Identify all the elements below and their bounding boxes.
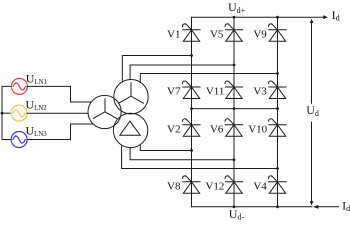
arrow Id top: [323, 15, 328, 19]
AC source ULN3: [11, 132, 27, 148]
svg-text:V2: V2: [167, 123, 180, 135]
wire neutral to source 2: [2, 112, 11, 114]
node middle bus leg1: [190, 107, 193, 110]
node middle bus leg2: [233, 107, 236, 110]
wire bridge leg 1: [191, 17, 193, 207]
node delta tap leg1: [190, 149, 193, 152]
node bottom bus leg2: [233, 205, 236, 208]
node delta tap leg2: [233, 158, 236, 161]
wire Ud measure lower: [311, 122, 313, 201]
svg-text:ULN1: ULN1: [26, 72, 47, 87]
thyristor V7: [183, 81, 201, 98]
wire delta lead b: [130, 148, 234, 160]
node wye tap leg2: [233, 64, 236, 67]
svg-text:V7: V7: [167, 86, 181, 98]
svg-text:Ud: Ud: [306, 103, 319, 118]
svg-text:Id: Id: [332, 8, 340, 23]
svg-text:V6: V6: [210, 123, 224, 135]
wire wye lead a: [122, 56, 191, 82]
node middle bus leg3: [276, 107, 279, 110]
wire bridge leg 2: [233, 17, 235, 207]
wire top bus Ud+: [192, 16, 323, 18]
thyristor V8: [183, 176, 201, 193]
thyristor V4: [269, 176, 287, 193]
transformer delta secondary winding: [113, 113, 147, 147]
AC source ULN1: [11, 78, 27, 94]
wire bottom bus Ud-: [192, 206, 313, 208]
thyristor V9: [269, 24, 287, 41]
svg-text:V11: V11: [206, 86, 225, 98]
svg-text:V1: V1: [167, 29, 180, 41]
svg-text:V4: V4: [253, 181, 267, 193]
svg-text:V10: V10: [248, 123, 267, 135]
svg-text:V9: V9: [253, 29, 267, 41]
svg-text:V8: V8: [167, 181, 181, 193]
node bottom bus leg3: [276, 205, 279, 208]
transformer primary winding: [88, 95, 121, 128]
arrow Id bottom: [313, 205, 318, 209]
svg-text:Id: Id: [342, 198, 350, 213]
node top bus leg3: [276, 16, 279, 19]
node top bus leg2: [233, 16, 236, 19]
wire Id bottom: [318, 206, 338, 208]
thyristor V6: [225, 119, 243, 136]
thyristor V10: [269, 119, 287, 136]
wire phase 1: [27, 86, 91, 102]
thyristor V5: [225, 24, 243, 41]
node wye tap leg1: [190, 54, 193, 57]
arrow Ud down: [310, 201, 314, 205]
svg-text:Ud-: Ud-: [229, 207, 245, 222]
wire wye lead c: [140, 74, 277, 83]
wire neutral to source 3: [2, 139, 11, 141]
transformer wye secondary winding: [114, 80, 148, 114]
thyristor V3: [269, 81, 287, 98]
wire Ud measure upper: [311, 23, 313, 104]
thyristor V12: [225, 176, 243, 193]
svg-text:V3: V3: [253, 86, 267, 98]
wire bridge leg 3: [277, 17, 279, 207]
AC source ULN2: [11, 105, 27, 121]
left neutral bus wire: [1, 86, 3, 139]
wire phase 2: [27, 112, 88, 114]
thyristor V11: [225, 81, 243, 98]
wire neutral to source 1: [2, 85, 11, 87]
svg-text:Ud+: Ud+: [228, 0, 246, 15]
wire delta lead c: [122, 145, 278, 168]
wire phase 3: [27, 124, 93, 140]
svg-text:ULN3: ULN3: [26, 124, 48, 139]
thyristor V2: [183, 119, 201, 136]
wire middle bus: [192, 108, 278, 110]
wire delta lead a: [140, 145, 191, 151]
svg-text:ULN2: ULN2: [26, 97, 48, 112]
svg-text:V5: V5: [210, 29, 224, 41]
wire wye lead b: [130, 65, 234, 80]
node neutral junction: [1, 112, 4, 115]
node wye tap leg3: [276, 72, 279, 75]
arrow Ud up: [310, 19, 314, 23]
thyristor V1: [183, 24, 201, 41]
svg-text:V12: V12: [205, 181, 224, 193]
node delta tap leg3: [276, 167, 279, 170]
